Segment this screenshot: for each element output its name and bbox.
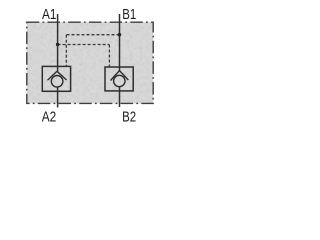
svg-text:B1: B1 xyxy=(122,7,136,23)
svg-text:A1: A1 xyxy=(42,7,57,23)
svg-text:B2: B2 xyxy=(122,110,136,126)
svg-text:A2: A2 xyxy=(42,109,57,125)
